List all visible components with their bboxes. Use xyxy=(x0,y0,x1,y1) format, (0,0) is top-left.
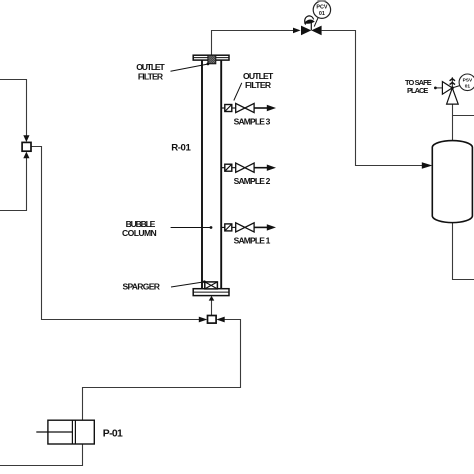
svg-text:SAMPLE 1: SAMPLE 1 xyxy=(234,236,271,246)
svg-text:01: 01 xyxy=(319,11,325,17)
svg-text:PSV: PSV xyxy=(463,78,473,84)
svg-text:COLUMN: COLUMN xyxy=(122,228,157,238)
svg-text:PLACE: PLACE xyxy=(407,86,428,95)
svg-text:R-01: R-01 xyxy=(171,142,191,153)
svg-text:SAMPLE 2: SAMPLE 2 xyxy=(234,176,271,186)
svg-text:01: 01 xyxy=(465,83,471,89)
svg-text:SAMPLE 3: SAMPLE 3 xyxy=(234,116,271,126)
svg-text:SPARGER: SPARGER xyxy=(122,282,160,292)
svg-text:P-01: P-01 xyxy=(103,429,123,440)
svg-text:PCV: PCV xyxy=(316,5,327,11)
svg-text:OUTLET: OUTLET xyxy=(136,62,165,72)
svg-text:FILTER: FILTER xyxy=(138,71,164,81)
svg-text:FILTER: FILTER xyxy=(245,80,272,90)
